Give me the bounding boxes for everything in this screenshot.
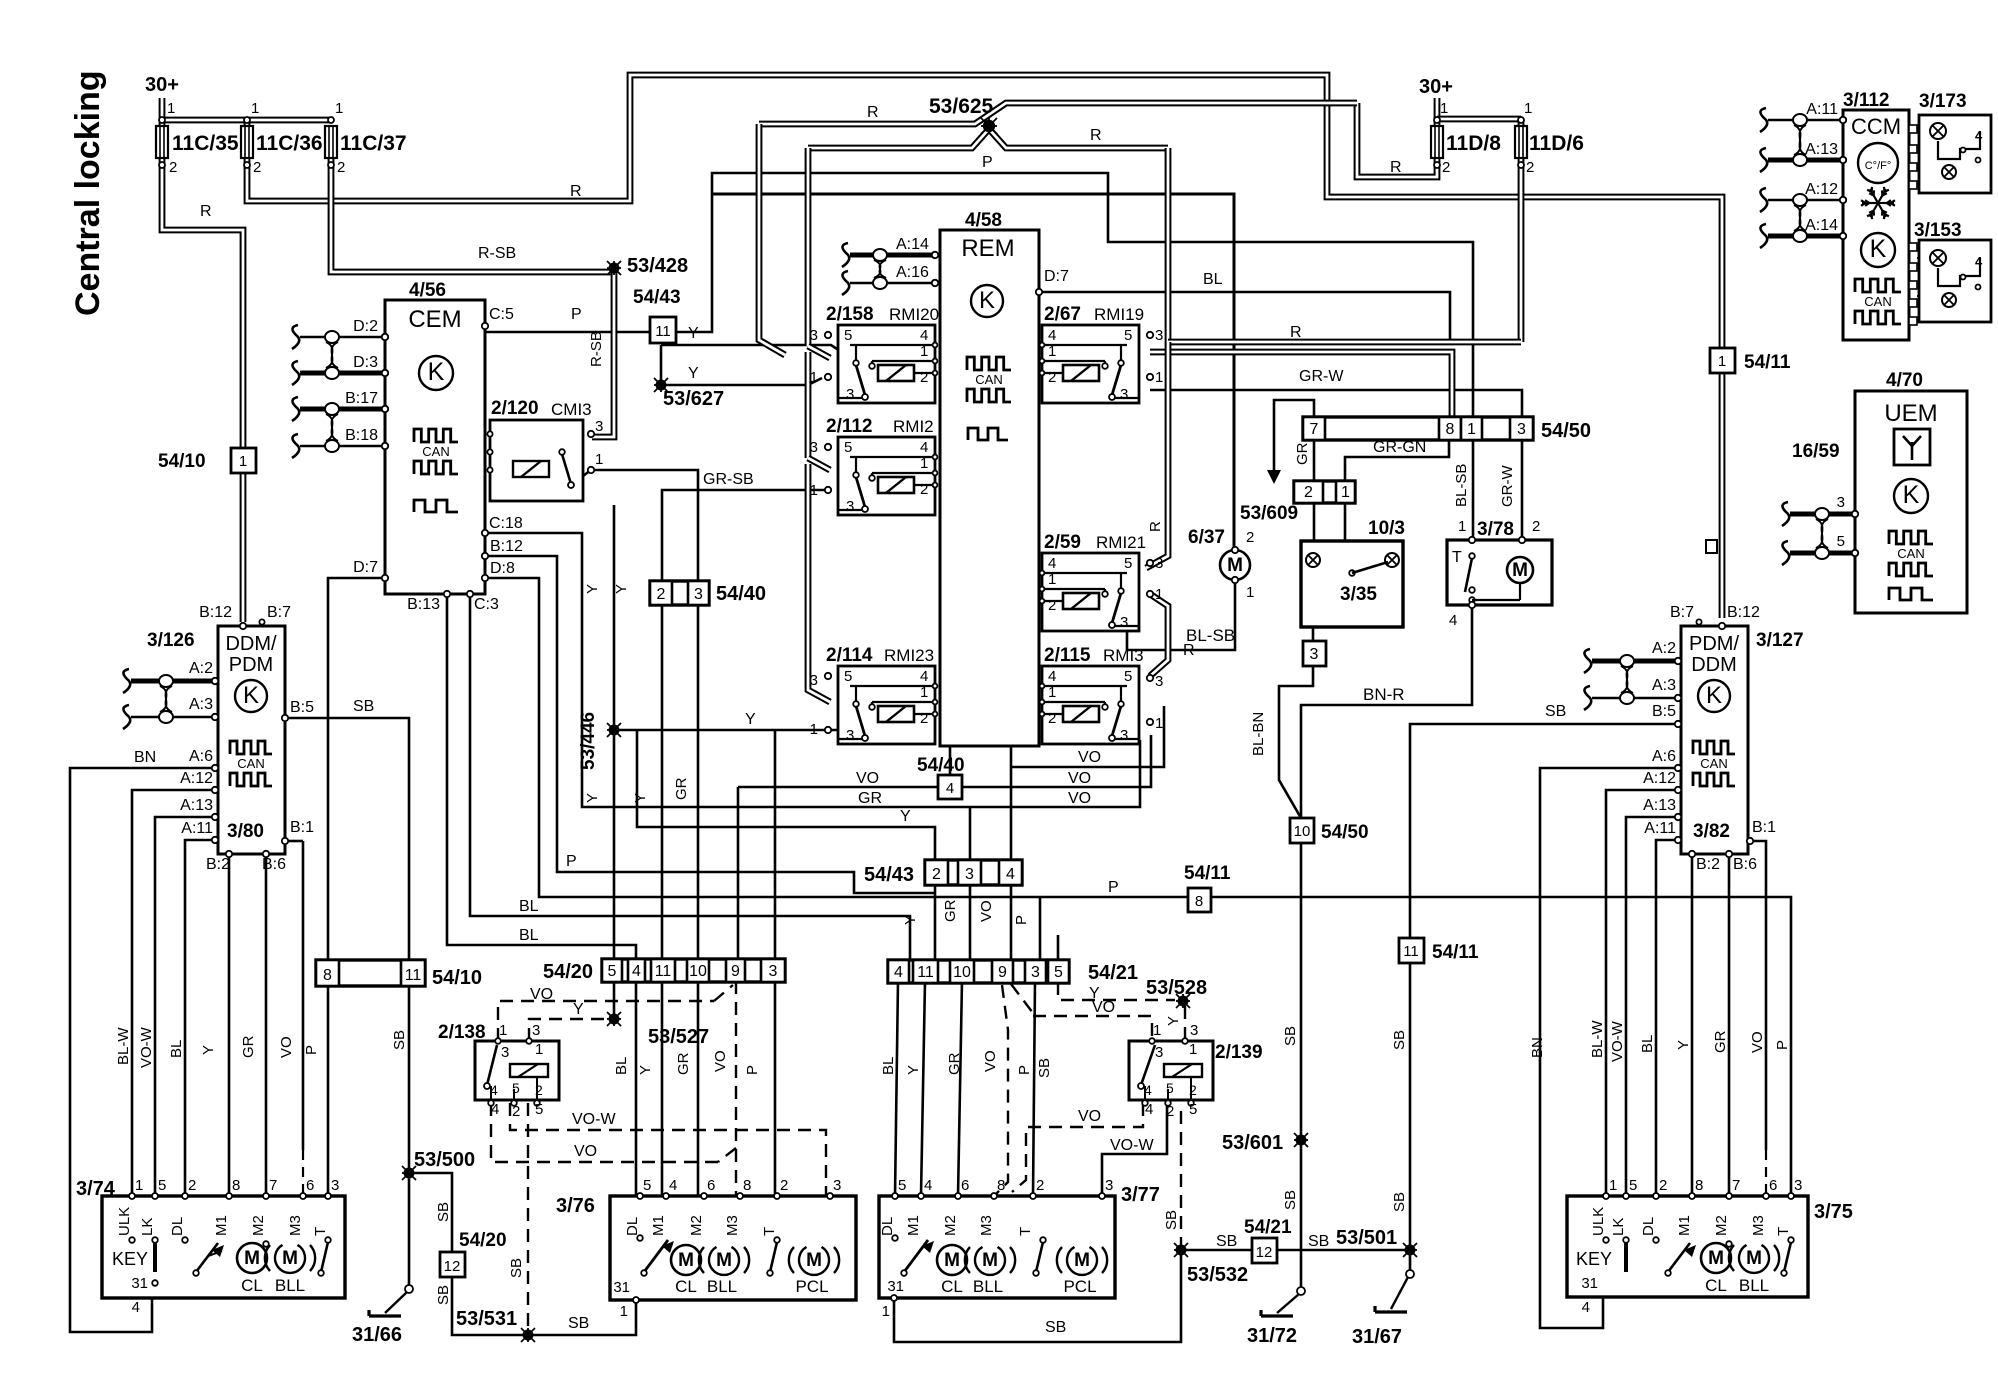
wire (327, 1196, 330, 1238)
wire (double supply) (240, 472, 247, 622)
svg-text:3/127: 3/127 (1756, 630, 1804, 651)
svg-text:2: 2 (920, 369, 928, 386)
relay 2/138 (475, 1041, 559, 1100)
svg-text:GR: GR (1294, 442, 1311, 465)
wire (949, 746, 952, 776)
svg-text:3/35: 3/35 (1340, 584, 1377, 605)
svg-text:9: 9 (998, 964, 1007, 981)
svg-text:1: 1 (810, 369, 818, 386)
lamp unit 3/153 (1919, 240, 1991, 322)
svg-text:M: M (282, 1248, 298, 1269)
svg-text:1: 1 (1718, 353, 1726, 370)
svg-text:P: P (982, 154, 993, 171)
svg-text:11: 11 (655, 323, 671, 340)
svg-text:R: R (867, 104, 879, 121)
control module UEM 4/70 (1855, 391, 1967, 613)
svg-text:VO: VO (712, 1050, 729, 1072)
wire (934, 885, 937, 960)
wire (697, 981, 700, 1196)
wire (1410, 724, 1678, 1270)
svg-text:SB: SB (353, 698, 374, 715)
wire (639, 1196, 642, 1236)
svg-text:1: 1 (810, 482, 818, 499)
svg-text:54/20: 54/20 (543, 961, 593, 983)
svg-text:8: 8 (232, 1177, 240, 1194)
svg-text:4: 4 (920, 327, 928, 344)
svg-text:B:5: B:5 (1652, 703, 1676, 720)
svg-text:CAN: CAN (1700, 756, 1727, 771)
svg-text:SB: SB (1545, 703, 1566, 720)
svg-text:1: 1 (1341, 484, 1350, 501)
svg-text:3/77: 3/77 (1121, 1184, 1160, 1206)
wire (969, 885, 972, 960)
svg-text:1: 1 (1155, 586, 1163, 603)
svg-text:Y: Y (1165, 1016, 1182, 1026)
svg-text:A:2: A:2 (1652, 640, 1676, 657)
svg-text:2: 2 (169, 159, 177, 176)
svg-text:P: P (303, 1045, 320, 1055)
wire (double supply) (159, 98, 166, 126)
svg-text:2: 2 (1246, 529, 1254, 546)
svg-text:31/67: 31/67 (1352, 1326, 1402, 1348)
relay 2/59 RMI21 (1042, 553, 1139, 631)
svg-text:CAN: CAN (1864, 294, 1891, 309)
wire (408, 1176, 411, 1285)
svg-text:3: 3 (595, 418, 603, 435)
svg-text:5: 5 (158, 1177, 166, 1194)
svg-text:53/501: 53/501 (1336, 1227, 1397, 1249)
wire (265, 854, 268, 1196)
svg-text:2/115: 2/115 (1044, 645, 1091, 666)
svg-text:M: M (1074, 1250, 1090, 1271)
wire (894, 1282, 904, 1285)
svg-text:54/50: 54/50 (1321, 822, 1369, 843)
svg-text:K: K (979, 287, 995, 314)
svg-text:2: 2 (1526, 159, 1534, 176)
wire (dashed) (996, 985, 1008, 1194)
wire (dashed) (1012, 1103, 1143, 1192)
svg-text:2: 2 (1166, 1103, 1174, 1120)
wire (1279, 666, 1313, 818)
svg-text:2/158: 2/158 (826, 304, 874, 325)
svg-text:SB: SB (1045, 1319, 1066, 1336)
wire (894, 1196, 897, 1236)
svg-text:2/59: 2/59 (1044, 532, 1081, 553)
svg-text:M3: M3 (978, 1215, 995, 1236)
wire (228, 1196, 231, 1246)
svg-text:5: 5 (1189, 1101, 1197, 1118)
svg-text:9: 9 (731, 963, 740, 980)
fuse 11C/35 (156, 126, 168, 158)
svg-text:11: 11 (405, 967, 422, 984)
svg-text:ULK: ULK (116, 1207, 133, 1236)
wire (double supply) (592, 271, 614, 437)
svg-text:3: 3 (1120, 386, 1128, 403)
svg-text:16/59: 16/59 (1792, 441, 1840, 462)
door module PDM/DDM 3/127 (1681, 626, 1748, 854)
svg-text:3: 3 (1190, 1022, 1198, 1039)
svg-text:T: T (312, 1227, 329, 1236)
fuse 11C/37 (325, 126, 337, 158)
wire (921, 981, 925, 1196)
svg-text:VO: VO (278, 1036, 295, 1058)
svg-text:GR: GR (858, 790, 882, 807)
svg-text:BL-BN: BL-BN (1250, 712, 1267, 756)
wire (591, 470, 698, 581)
svg-text:54/40: 54/40 (917, 755, 965, 776)
wire (571, 470, 591, 485)
svg-text:BL: BL (1639, 1035, 1656, 1053)
splice 53/501 (1403, 1243, 1417, 1257)
UEM twisted pair (1790, 512, 1855, 517)
svg-text:BL-W: BL-W (1589, 1020, 1606, 1058)
svg-text:1: 1 (167, 100, 175, 117)
svg-text:4: 4 (490, 1082, 498, 1098)
svg-text:4: 4 (920, 668, 928, 685)
svg-text:D:3: D:3 (353, 354, 378, 371)
svg-text:A:2: A:2 (189, 660, 213, 677)
wire (287, 718, 409, 1170)
svg-text:3: 3 (501, 1044, 509, 1061)
wire (738, 786, 938, 789)
svg-text:3: 3 (1794, 1177, 1802, 1194)
svg-text:30+: 30+ (1419, 76, 1453, 98)
wire (dashed) (1184, 1006, 1186, 1041)
svg-text:VO: VO (978, 900, 995, 922)
wire (1276, 1249, 1410, 1252)
svg-text:A:3: A:3 (1652, 677, 1676, 694)
splice 53/428 (607, 261, 621, 275)
door unit 3/76 (610, 1196, 856, 1300)
svg-text:3: 3 (1155, 673, 1163, 690)
svg-text:A:12: A:12 (1643, 770, 1676, 787)
CEM inputs twisted pairs (300, 336, 385, 338)
svg-text:53/527: 53/527 (648, 1026, 709, 1048)
wire (1344, 503, 1347, 575)
wire (155, 817, 215, 1196)
svg-text:R-SB: R-SB (588, 331, 605, 367)
svg-text:CL: CL (1705, 1276, 1727, 1295)
svg-text:6: 6 (1769, 1177, 1777, 1194)
wire (double supply) (805, 148, 812, 346)
wire (double supply) (162, 158, 243, 448)
svg-text:8: 8 (1195, 893, 1203, 910)
svg-text:A:11: A:11 (1806, 101, 1838, 118)
svg-text:CAN: CAN (1897, 546, 1924, 561)
wire (485, 533, 1140, 807)
svg-text:4: 4 (920, 439, 928, 456)
svg-text:M3: M3 (724, 1215, 741, 1236)
svg-text:DL: DL (169, 1217, 186, 1236)
wire (dashed) (549, 468, 562, 470)
svg-text:2/114: 2/114 (826, 645, 873, 666)
svg-text:RMI21: RMI21 (1096, 533, 1146, 552)
svg-text:CAN: CAN (237, 756, 264, 771)
connector 54/50 pin 10 (1290, 818, 1314, 843)
wire (697, 605, 700, 960)
wire (184, 1196, 187, 1238)
svg-text:3: 3 (1120, 727, 1128, 744)
wire (double supply) (759, 103, 1357, 124)
svg-text:CL: CL (941, 1277, 963, 1296)
svg-text:5: 5 (844, 668, 852, 685)
ground 31/72 (1297, 1287, 1305, 1295)
svg-text:SB: SB (1163, 1210, 1180, 1230)
wire (1626, 817, 1678, 1196)
wire (double supply) (759, 124, 785, 355)
wire (1101, 1196, 1104, 1252)
svg-text:54/11: 54/11 (1432, 942, 1479, 963)
wire (1605, 1196, 1608, 1238)
control module REM 4/58 (940, 230, 1039, 746)
svg-text:M: M (1746, 1248, 1762, 1269)
svg-text:3: 3 (532, 1022, 540, 1039)
svg-text:7: 7 (1732, 1177, 1740, 1194)
svg-text:5: 5 (1124, 327, 1132, 344)
wire (302, 841, 305, 1150)
svg-text:1: 1 (499, 1022, 507, 1039)
svg-text:M: M (1227, 555, 1243, 576)
wire (1039, 292, 1450, 340)
motor unit 3/78 (1447, 540, 1552, 605)
svg-text:A:14: A:14 (1805, 217, 1838, 234)
svg-text:1: 1 (920, 684, 928, 701)
wire (485, 556, 934, 893)
svg-text:R: R (1090, 127, 1102, 144)
svg-text:5: 5 (535, 1101, 543, 1118)
wire (1602, 1283, 1605, 1298)
svg-text:VO: VO (982, 1050, 999, 1072)
svg-text:D:8: D:8 (490, 560, 515, 577)
svg-text:4/58: 4/58 (965, 210, 1002, 231)
wire (dashed) (1011, 984, 1033, 1013)
wire (1625, 1196, 1628, 1238)
wire (251, 1273, 254, 1283)
svg-text:P: P (1774, 1040, 1791, 1050)
svg-text:2: 2 (932, 866, 941, 883)
svg-text:54/43: 54/43 (864, 864, 914, 886)
svg-text:5: 5 (1124, 668, 1132, 685)
PDM twisted pair (1592, 659, 1678, 664)
svg-text:B:2: B:2 (1696, 856, 1720, 873)
svg-text:T: T (1452, 549, 1462, 566)
svg-text:P: P (566, 853, 577, 870)
svg-text:GR: GR (1712, 1030, 1729, 1053)
svg-text:54/11: 54/11 (1184, 863, 1231, 884)
svg-text:3: 3 (1310, 646, 1319, 663)
svg-text:2/120: 2/120 (491, 398, 539, 419)
wire (774, 981, 777, 1196)
svg-text:Y: Y (902, 915, 919, 925)
svg-text:53/428: 53/428 (627, 255, 688, 277)
wire (613, 1012, 616, 1019)
wire (1127, 580, 1235, 650)
door unit 3/77 (879, 1196, 1115, 1298)
svg-text:PCL: PCL (795, 1277, 828, 1296)
svg-text:RMI2: RMI2 (893, 417, 934, 436)
svg-text:3: 3 (331, 1177, 339, 1194)
svg-text:BL: BL (1203, 271, 1223, 288)
svg-text:GR-W: GR-W (1499, 465, 1516, 507)
svg-text:KEY: KEY (1576, 1249, 1612, 1269)
svg-text:54/10: 54/10 (432, 967, 482, 989)
lamp unit 3/173 (1919, 115, 1991, 193)
connector 54/20 row (602, 959, 785, 982)
svg-text:A:6: A:6 (189, 748, 213, 765)
svg-text:Y: Y (613, 584, 630, 594)
wire (1301, 605, 1472, 818)
svg-text:2: 2 (657, 586, 666, 603)
wire (dashed) (718, 1148, 736, 1162)
svg-text:4/70: 4/70 (1886, 370, 1923, 391)
ground 31/66 (405, 1285, 413, 1293)
wire (485, 331, 650, 334)
svg-text:B:12: B:12 (199, 604, 232, 621)
wire (1313, 541, 1316, 554)
svg-text:R-SB: R-SB (478, 245, 516, 262)
svg-text:VO: VO (1078, 1108, 1101, 1125)
svg-text:4: 4 (1975, 254, 1983, 269)
svg-text:R: R (1147, 521, 1164, 532)
svg-text:BLL: BLL (1739, 1276, 1769, 1295)
svg-text:M: M (1512, 560, 1528, 581)
svg-text:4: 4 (1048, 668, 1056, 685)
svg-text:4: 4 (491, 1101, 499, 1118)
svg-text:5: 5 (608, 963, 617, 980)
svg-text:LK: LK (139, 1218, 156, 1236)
wire (double supply) (808, 346, 830, 358)
relay 2/139 (1129, 1041, 1213, 1100)
svg-text:LK: LK (1610, 1218, 1627, 1236)
svg-text:53/625: 53/625 (929, 95, 994, 118)
svg-text:53/609: 53/609 (1240, 503, 1298, 524)
svg-text:GR-GN: GR-GN (1373, 439, 1426, 456)
svg-text:VO: VO (1078, 749, 1101, 766)
wire (1057, 935, 1060, 960)
svg-text:1: 1 (920, 455, 928, 472)
svg-text:1: 1 (335, 100, 343, 117)
svg-text:R: R (1290, 324, 1302, 341)
svg-text:4: 4 (1048, 327, 1056, 344)
svg-text:7: 7 (1310, 421, 1319, 438)
svg-text:GR: GR (942, 899, 959, 922)
wire (double supply) (1719, 371, 1726, 618)
control module CEM 4/56 (385, 300, 485, 594)
svg-text:M2: M2 (942, 1215, 959, 1236)
connector 54/11 pin 1 (top right) (1710, 348, 1735, 373)
svg-text:C:5: C:5 (489, 306, 514, 323)
wire (double supply) (162, 117, 331, 124)
svg-text:SB: SB (1282, 1190, 1299, 1210)
svg-text:PDM: PDM (229, 654, 273, 676)
svg-text:31: 31 (613, 1279, 630, 1296)
wire (661, 605, 664, 960)
svg-text:1: 1 (135, 1177, 143, 1194)
svg-text:3: 3 (1120, 614, 1128, 631)
svg-text:2: 2 (1532, 518, 1540, 535)
splice 53/528 (1176, 994, 1190, 1008)
wire (1540, 768, 1678, 1328)
wire (1606, 790, 1678, 1196)
svg-text:DL: DL (879, 1217, 896, 1236)
clip on 54/11 wire (1706, 540, 1717, 553)
wire (1010, 746, 1013, 860)
wire (double supply) (1168, 339, 1521, 346)
wire (dashed) (491, 1103, 718, 1162)
svg-text:4: 4 (632, 963, 641, 980)
svg-text:12: 12 (444, 1258, 461, 1275)
svg-text:1: 1 (1440, 100, 1448, 117)
svg-text:SB: SB (1391, 1192, 1408, 1212)
svg-text:CL: CL (675, 1277, 697, 1296)
svg-text:54/11: 54/11 (1744, 352, 1791, 373)
connector 54/11 pin 8 (1188, 888, 1211, 912)
svg-text:GR: GR (675, 1052, 692, 1075)
wire (double supply) (1357, 103, 1437, 177)
svg-text:M: M (1708, 1248, 1724, 1269)
svg-text:2: 2 (1048, 710, 1056, 727)
svg-text:M: M (244, 1248, 260, 1269)
svg-text:BN-R: BN-R (1363, 685, 1405, 704)
wire (1345, 440, 1449, 481)
svg-text:BL: BL (613, 1057, 630, 1075)
wire (dashed) (302, 1150, 304, 1244)
svg-text:SB: SB (435, 1285, 452, 1305)
wire (dashed) (714, 985, 733, 1001)
svg-text:10/3: 10/3 (1368, 518, 1405, 539)
wire (1312, 567, 1315, 641)
svg-text:3/126: 3/126 (147, 630, 195, 651)
wire (251, 1243, 254, 1246)
svg-text:3: 3 (769, 963, 778, 980)
svg-text:2: 2 (1048, 369, 1056, 386)
svg-text:Y: Y (573, 1001, 584, 1018)
wire (774, 730, 777, 960)
wire (dashed) (1058, 982, 1175, 1000)
svg-text:3: 3 (1155, 327, 1163, 344)
svg-text:2: 2 (780, 1177, 788, 1194)
splice 53/531 (521, 1328, 535, 1342)
svg-text:4: 4 (1145, 1101, 1153, 1118)
svg-text:2: 2 (1304, 484, 1313, 501)
wire (double supply) (1150, 594, 1168, 676)
svg-text:A:13: A:13 (180, 797, 213, 814)
wire (1691, 1196, 1694, 1246)
splice 53/625 (981, 118, 997, 134)
splice 53/627 (654, 378, 668, 392)
svg-text:4: 4 (1449, 612, 1457, 629)
svg-text:M2: M2 (1713, 1215, 1730, 1236)
svg-text:Y: Y (900, 808, 911, 825)
svg-text:2: 2 (188, 1177, 196, 1194)
svg-text:8: 8 (1695, 1177, 1703, 1194)
svg-text:R: R (200, 203, 212, 220)
wire (double supply) (1434, 98, 1441, 126)
fuse 11D/6 (1515, 126, 1527, 158)
svg-text:A:13: A:13 (1805, 141, 1838, 158)
svg-text:K: K (1706, 682, 1722, 709)
svg-text:1: 1 (535, 1041, 543, 1058)
fuse 11C/36 (241, 126, 253, 158)
svg-text:2/112: 2/112 (826, 416, 873, 437)
wire (dashed) (1099, 600, 1110, 602)
svg-text:3: 3 (1031, 964, 1040, 981)
wire (1790, 1196, 1793, 1238)
svg-text:31/66: 31/66 (352, 1324, 402, 1346)
svg-text:K: K (1903, 481, 1920, 509)
wire (614, 729, 838, 732)
wire (485, 578, 1791, 1196)
